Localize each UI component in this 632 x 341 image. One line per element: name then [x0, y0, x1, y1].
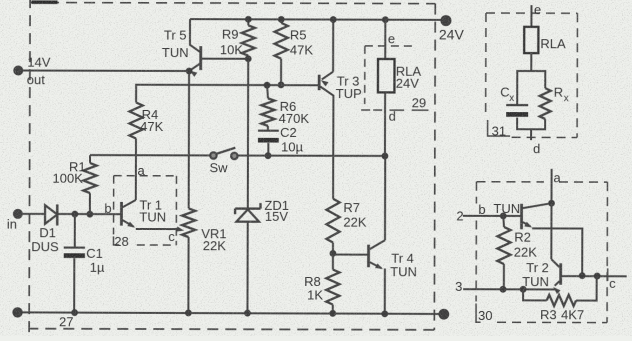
dashed box 31 [486, 12, 577, 14]
transistor Tr1 [120, 202, 123, 226]
wire node a (R4 to Tr1 collector) [135, 138, 137, 199]
junction R1 bottom [86, 211, 93, 218]
resistor Rx [540, 88, 551, 119]
border ink smudge [31, 0, 57, 3]
resistor R6 [267, 85, 268, 98]
wire Tr4 emitter to rail [384, 269, 386, 314]
resistor R3 [523, 276, 597, 301]
wire snubber loop [517, 71, 545, 129]
junction R2 bottom [500, 286, 507, 293]
zener ZD1 [235, 207, 260, 209]
junction upper collector node a [548, 200, 555, 207]
resistor R7 [326, 199, 339, 243]
junction C1 top [71, 211, 78, 218]
junction Tr4 emitter rail [381, 310, 388, 317]
wire Tr4 collector riser (node d) [384, 156, 386, 240]
junction zener bottom rail [244, 310, 251, 317]
junction R5 bottom [278, 81, 285, 88]
dashed box 30 [476, 181, 543, 183]
resistor R8 [332, 253, 334, 269]
transistor Tr5 [190, 19, 201, 52]
potentiometer VR1 [182, 208, 195, 237]
resistor R2 [502, 216, 505, 227]
transistor TUN upper (box30) [520, 204, 523, 229]
capacitor C2 [267, 126, 269, 131]
wire d out of box31 [530, 129, 532, 140]
terminal 24V [440, 15, 451, 26]
terminal bottom left [12, 307, 22, 317]
junction R5 top [278, 16, 285, 23]
wire VR1 to bottom rail [187, 237, 189, 313]
wire +24V top rail [190, 18, 446, 21]
wire R9 bottom down to zener [247, 59, 249, 209]
node c label (box30) [607, 268, 609, 280]
junction relay e rail [382, 16, 389, 23]
wire a into box30 [550, 169, 552, 203]
wire input line left [18, 213, 45, 215]
wire node e [384, 20, 386, 59]
junction node d line [382, 153, 389, 160]
wire e into box31 [530, 5, 532, 27]
junction R3 left [520, 286, 527, 293]
junction C2 bottom [265, 152, 272, 159]
main dashed enclosure border [30, 2, 435, 3]
junction R7 R8 Tr4 base [330, 250, 337, 257]
junction R6 top [264, 82, 271, 89]
transistor Tr4 [367, 245, 370, 268]
wire R1 top to switch [90, 154, 210, 156]
dashed box 28 [114, 175, 177, 177]
wire zener to bottom rail [246, 222, 248, 313]
capacitor Cx [506, 104, 528, 106]
junction R2 top [500, 213, 507, 220]
terminal 14V out [13, 66, 23, 76]
relay coil RLA (box31) [524, 27, 538, 53]
diode D1 [45, 205, 57, 224]
capacitor C1 [74, 214, 76, 247]
wire terminal 3 line [463, 288, 555, 290]
junction Tr3 rail [330, 16, 337, 23]
wire 14V output line [18, 70, 189, 73]
wire node d from relay [384, 92, 386, 156]
junction R8 bottom rail [329, 310, 336, 317]
transistor Tr2 [559, 263, 562, 284]
resistor R5 [280, 19, 282, 22]
wire Tr3 base line [136, 85, 319, 103]
junction Tr5 emitter node [186, 68, 193, 75]
wire emitter node to VR1 [188, 71, 190, 208]
wire switch to node d line [237, 155, 384, 157]
junction VR1 bottom rail [185, 310, 192, 317]
wire Tr3 collector to R7 [332, 98, 334, 198]
junction R9 top [245, 16, 252, 23]
junction R3 to base [594, 273, 601, 280]
junction C1 bottom rail [71, 309, 78, 316]
resistor R9 [247, 19, 249, 25]
terminal bottom right [438, 309, 449, 320]
terminal in [13, 209, 23, 219]
resistor R1 [89, 155, 91, 163]
resistor R4 [129, 102, 142, 138]
junction R9 bottom node [245, 55, 252, 62]
wire a node down to Tr2 collector [550, 203, 552, 259]
wire RLA to snubber loop [530, 53, 532, 71]
switch Sw [210, 152, 216, 158]
junction upper emitter to base [579, 272, 586, 279]
wire upper emitter run [532, 228, 582, 275]
relay coil RLA [378, 59, 395, 92]
wire terminal 2 line [463, 215, 522, 217]
wire input line right [57, 213, 121, 215]
wire 0V bottom rail [18, 312, 444, 314]
wire Tr5 base to R9 [201, 58, 248, 60]
dashed box 29 [365, 45, 412, 47]
wire Tr1 emitter to VR1 wiper [136, 228, 178, 230]
wire Tr2 base line to c [561, 275, 627, 277]
transistor Tr3 [318, 75, 321, 90]
